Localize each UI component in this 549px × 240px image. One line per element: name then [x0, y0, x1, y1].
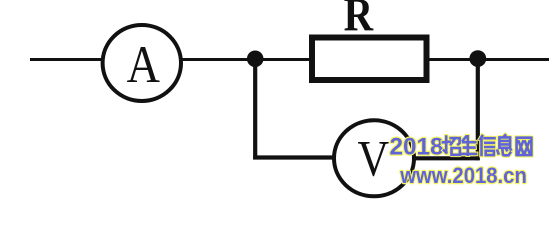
node A junction dot	[247, 51, 264, 68]
ammeter A1 circle	[103, 25, 181, 101]
wire: left vertical branch down from node A	[253, 55, 257, 160]
hanzi 网 blue	[517, 138, 532, 155]
wire: bottom horizontal right segment from voltmeter	[410, 156, 480, 160]
watermark hanzi 招生信息网	[443, 135, 531, 155]
hanzi 网 glow	[517, 138, 532, 155]
wire: bottom horizontal left segment to voltmeter	[253, 155, 340, 159]
hanzi 息 blue	[497, 135, 510, 155]
hanzi 招 blue	[443, 137, 460, 155]
voltmeter V1 circle	[334, 120, 414, 196]
resistor R1 body	[312, 38, 427, 81]
hanzi glow layer	[443, 135, 531, 155]
hanzi 信 glow	[480, 136, 494, 155]
svg-text:www.2018.cn: www.2018.cn	[399, 163, 527, 188]
hanzi 招 glow	[443, 137, 460, 155]
svg-text:R: R	[344, 0, 374, 41]
hanzi 生 blue	[462, 136, 476, 154]
wire: main top horizontal wire	[30, 58, 549, 61]
svg-text:A: A	[127, 35, 160, 94]
hanzi blue layer	[443, 135, 531, 155]
wire: right vertical branch down from node B	[476, 55, 480, 160]
hanzi 息 glow	[497, 135, 510, 155]
hanzi 生 glow	[462, 136, 476, 154]
hanzi 信 blue	[480, 136, 494, 155]
node B junction dot	[469, 50, 486, 67]
svg-text:2018: 2018	[390, 134, 444, 161]
svg-text:V: V	[357, 132, 389, 188]
